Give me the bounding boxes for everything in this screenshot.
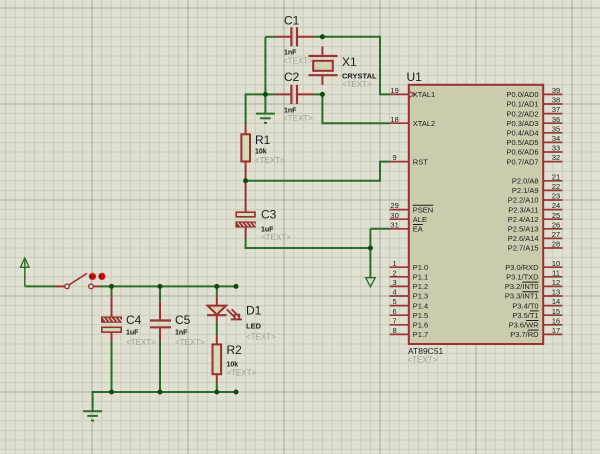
svg-text:AT89C51: AT89C51 <box>408 346 444 356</box>
svg-text:<TEXT>: <TEXT> <box>246 333 276 342</box>
svg-text:35: 35 <box>552 124 560 133</box>
svg-text:PSEN: PSEN <box>413 205 433 214</box>
svg-text:5: 5 <box>393 297 397 306</box>
svg-text:P3.4/T0: P3.4/T0 <box>512 301 538 310</box>
svg-text:17: 17 <box>552 326 560 335</box>
svg-text:<TEXT>: <TEXT> <box>175 338 205 347</box>
svg-text:P3.1/TXD: P3.1/TXD <box>506 273 539 282</box>
svg-text:P2.6/A14: P2.6/A14 <box>508 234 539 243</box>
svg-text:22: 22 <box>552 182 560 191</box>
svg-text:12: 12 <box>552 278 560 287</box>
svg-text:P2.4/A12: P2.4/A12 <box>508 215 539 224</box>
svg-text:1nF: 1nF <box>175 330 188 337</box>
svg-text:U1: U1 <box>407 70 423 84</box>
svg-text:P3.5/T1: P3.5/T1 <box>512 311 538 320</box>
svg-text:P1.7: P1.7 <box>413 330 428 339</box>
svg-text:P1.2: P1.2 <box>413 282 428 291</box>
svg-text:<TEXT>: <TEXT> <box>255 156 285 165</box>
svg-text:XTAL2: XTAL2 <box>413 119 435 128</box>
svg-text:<TEXT>: <TEXT> <box>283 114 313 123</box>
svg-text:27: 27 <box>552 230 560 239</box>
svg-text:<TEXT>: <TEXT> <box>261 233 291 242</box>
svg-text:CRYSTAL: CRYSTAL <box>342 71 377 80</box>
svg-text:29: 29 <box>390 201 398 210</box>
svg-text:C3: C3 <box>261 208 277 222</box>
svg-text:<TEXT>: <TEXT> <box>283 57 313 66</box>
svg-text:P3.3/INT1: P3.3/INT1 <box>505 292 539 301</box>
svg-text:30: 30 <box>390 211 398 220</box>
svg-text:4: 4 <box>393 288 397 297</box>
svg-text:25: 25 <box>552 211 560 220</box>
svg-text:P1.0: P1.0 <box>413 263 428 272</box>
svg-text:13: 13 <box>552 288 560 297</box>
svg-text:6: 6 <box>393 307 397 316</box>
svg-text:34: 34 <box>552 134 560 143</box>
svg-text:P0.2/AD2: P0.2/AD2 <box>506 109 538 118</box>
svg-text:3: 3 <box>393 278 397 287</box>
svg-text:RST: RST <box>413 157 428 166</box>
svg-text:P0.6/AD6: P0.6/AD6 <box>506 148 538 157</box>
svg-text:24: 24 <box>552 201 560 210</box>
svg-text:C5: C5 <box>175 313 191 327</box>
svg-text:P3.0/RXD: P3.0/RXD <box>505 263 539 272</box>
svg-text:2: 2 <box>393 268 397 277</box>
svg-text:32: 32 <box>552 153 560 162</box>
svg-text:10k: 10k <box>227 362 239 369</box>
svg-text:ALE: ALE <box>413 215 427 224</box>
svg-text:R1: R1 <box>255 133 271 147</box>
svg-text:10k: 10k <box>255 149 267 156</box>
svg-text:P3.7/RD: P3.7/RD <box>510 330 539 339</box>
svg-text:P0.3/AD3: P0.3/AD3 <box>506 119 538 128</box>
svg-text:P0.4/AD4: P0.4/AD4 <box>506 129 538 138</box>
svg-text:39: 39 <box>552 86 560 95</box>
svg-text:14: 14 <box>552 297 560 306</box>
svg-text:P0.7/AD7: P0.7/AD7 <box>506 157 538 166</box>
svg-text:1: 1 <box>393 259 397 268</box>
svg-text:XTAL1: XTAL1 <box>413 90 435 99</box>
svg-text:P3.2/INT0: P3.2/INT0 <box>505 282 539 291</box>
svg-text:36: 36 <box>552 115 560 124</box>
svg-text:D1: D1 <box>246 304 262 318</box>
svg-text:37: 37 <box>552 105 560 114</box>
svg-text:31: 31 <box>390 220 398 229</box>
svg-text:33: 33 <box>552 144 560 153</box>
svg-text:P3.6/WR: P3.6/WR <box>509 321 540 330</box>
svg-text:16: 16 <box>552 316 560 325</box>
svg-text:R2: R2 <box>227 343 243 357</box>
svg-text:19: 19 <box>390 86 398 95</box>
svg-text:P0.5/AD5: P0.5/AD5 <box>506 138 538 147</box>
svg-text:<TEXT>: <TEXT> <box>408 356 438 365</box>
svg-text:P1.6: P1.6 <box>413 321 428 330</box>
svg-text:C4: C4 <box>126 313 142 327</box>
svg-text:P0.0/AD0: P0.0/AD0 <box>506 90 538 99</box>
svg-text:P1.1: P1.1 <box>413 273 428 282</box>
svg-text:15: 15 <box>552 307 560 316</box>
svg-text:10: 10 <box>552 259 560 268</box>
svg-text:28: 28 <box>552 240 560 249</box>
svg-text:18: 18 <box>390 115 398 124</box>
svg-text:P1.4: P1.4 <box>413 301 428 310</box>
svg-text:P0.1/AD1: P0.1/AD1 <box>506 100 538 109</box>
svg-text:1nF: 1nF <box>284 50 297 57</box>
svg-text:<TEXT>: <TEXT> <box>126 338 156 347</box>
svg-text:26: 26 <box>552 220 560 229</box>
svg-text:C2: C2 <box>284 70 300 84</box>
svg-text:P2.5/A13: P2.5/A13 <box>508 225 539 234</box>
svg-text:P2.1/A9: P2.1/A9 <box>512 186 539 195</box>
svg-text:C1: C1 <box>284 14 300 28</box>
svg-text:X1: X1 <box>342 55 357 69</box>
svg-text:P2.2/A10: P2.2/A10 <box>508 196 539 205</box>
svg-text:8: 8 <box>393 326 397 335</box>
svg-text:P1.5: P1.5 <box>413 311 428 320</box>
svg-text:P2.7/A15: P2.7/A15 <box>508 244 539 253</box>
svg-text:38: 38 <box>552 96 560 105</box>
svg-text:<TEXT>: <TEXT> <box>342 80 372 89</box>
svg-text:P2.3/A11: P2.3/A11 <box>508 205 538 214</box>
svg-text:EA: EA <box>413 225 423 234</box>
svg-text:21: 21 <box>552 172 560 181</box>
svg-text:7: 7 <box>393 316 397 325</box>
svg-text:9: 9 <box>393 153 397 162</box>
svg-text:1uF: 1uF <box>126 330 139 337</box>
svg-text:P2.0/A8: P2.0/A8 <box>512 177 539 186</box>
svg-text:23: 23 <box>552 192 560 201</box>
svg-text:11: 11 <box>552 268 560 277</box>
svg-text:<TEXT>: <TEXT> <box>227 369 257 378</box>
svg-text:LED: LED <box>246 322 262 331</box>
svg-text:P1.3: P1.3 <box>413 292 428 301</box>
